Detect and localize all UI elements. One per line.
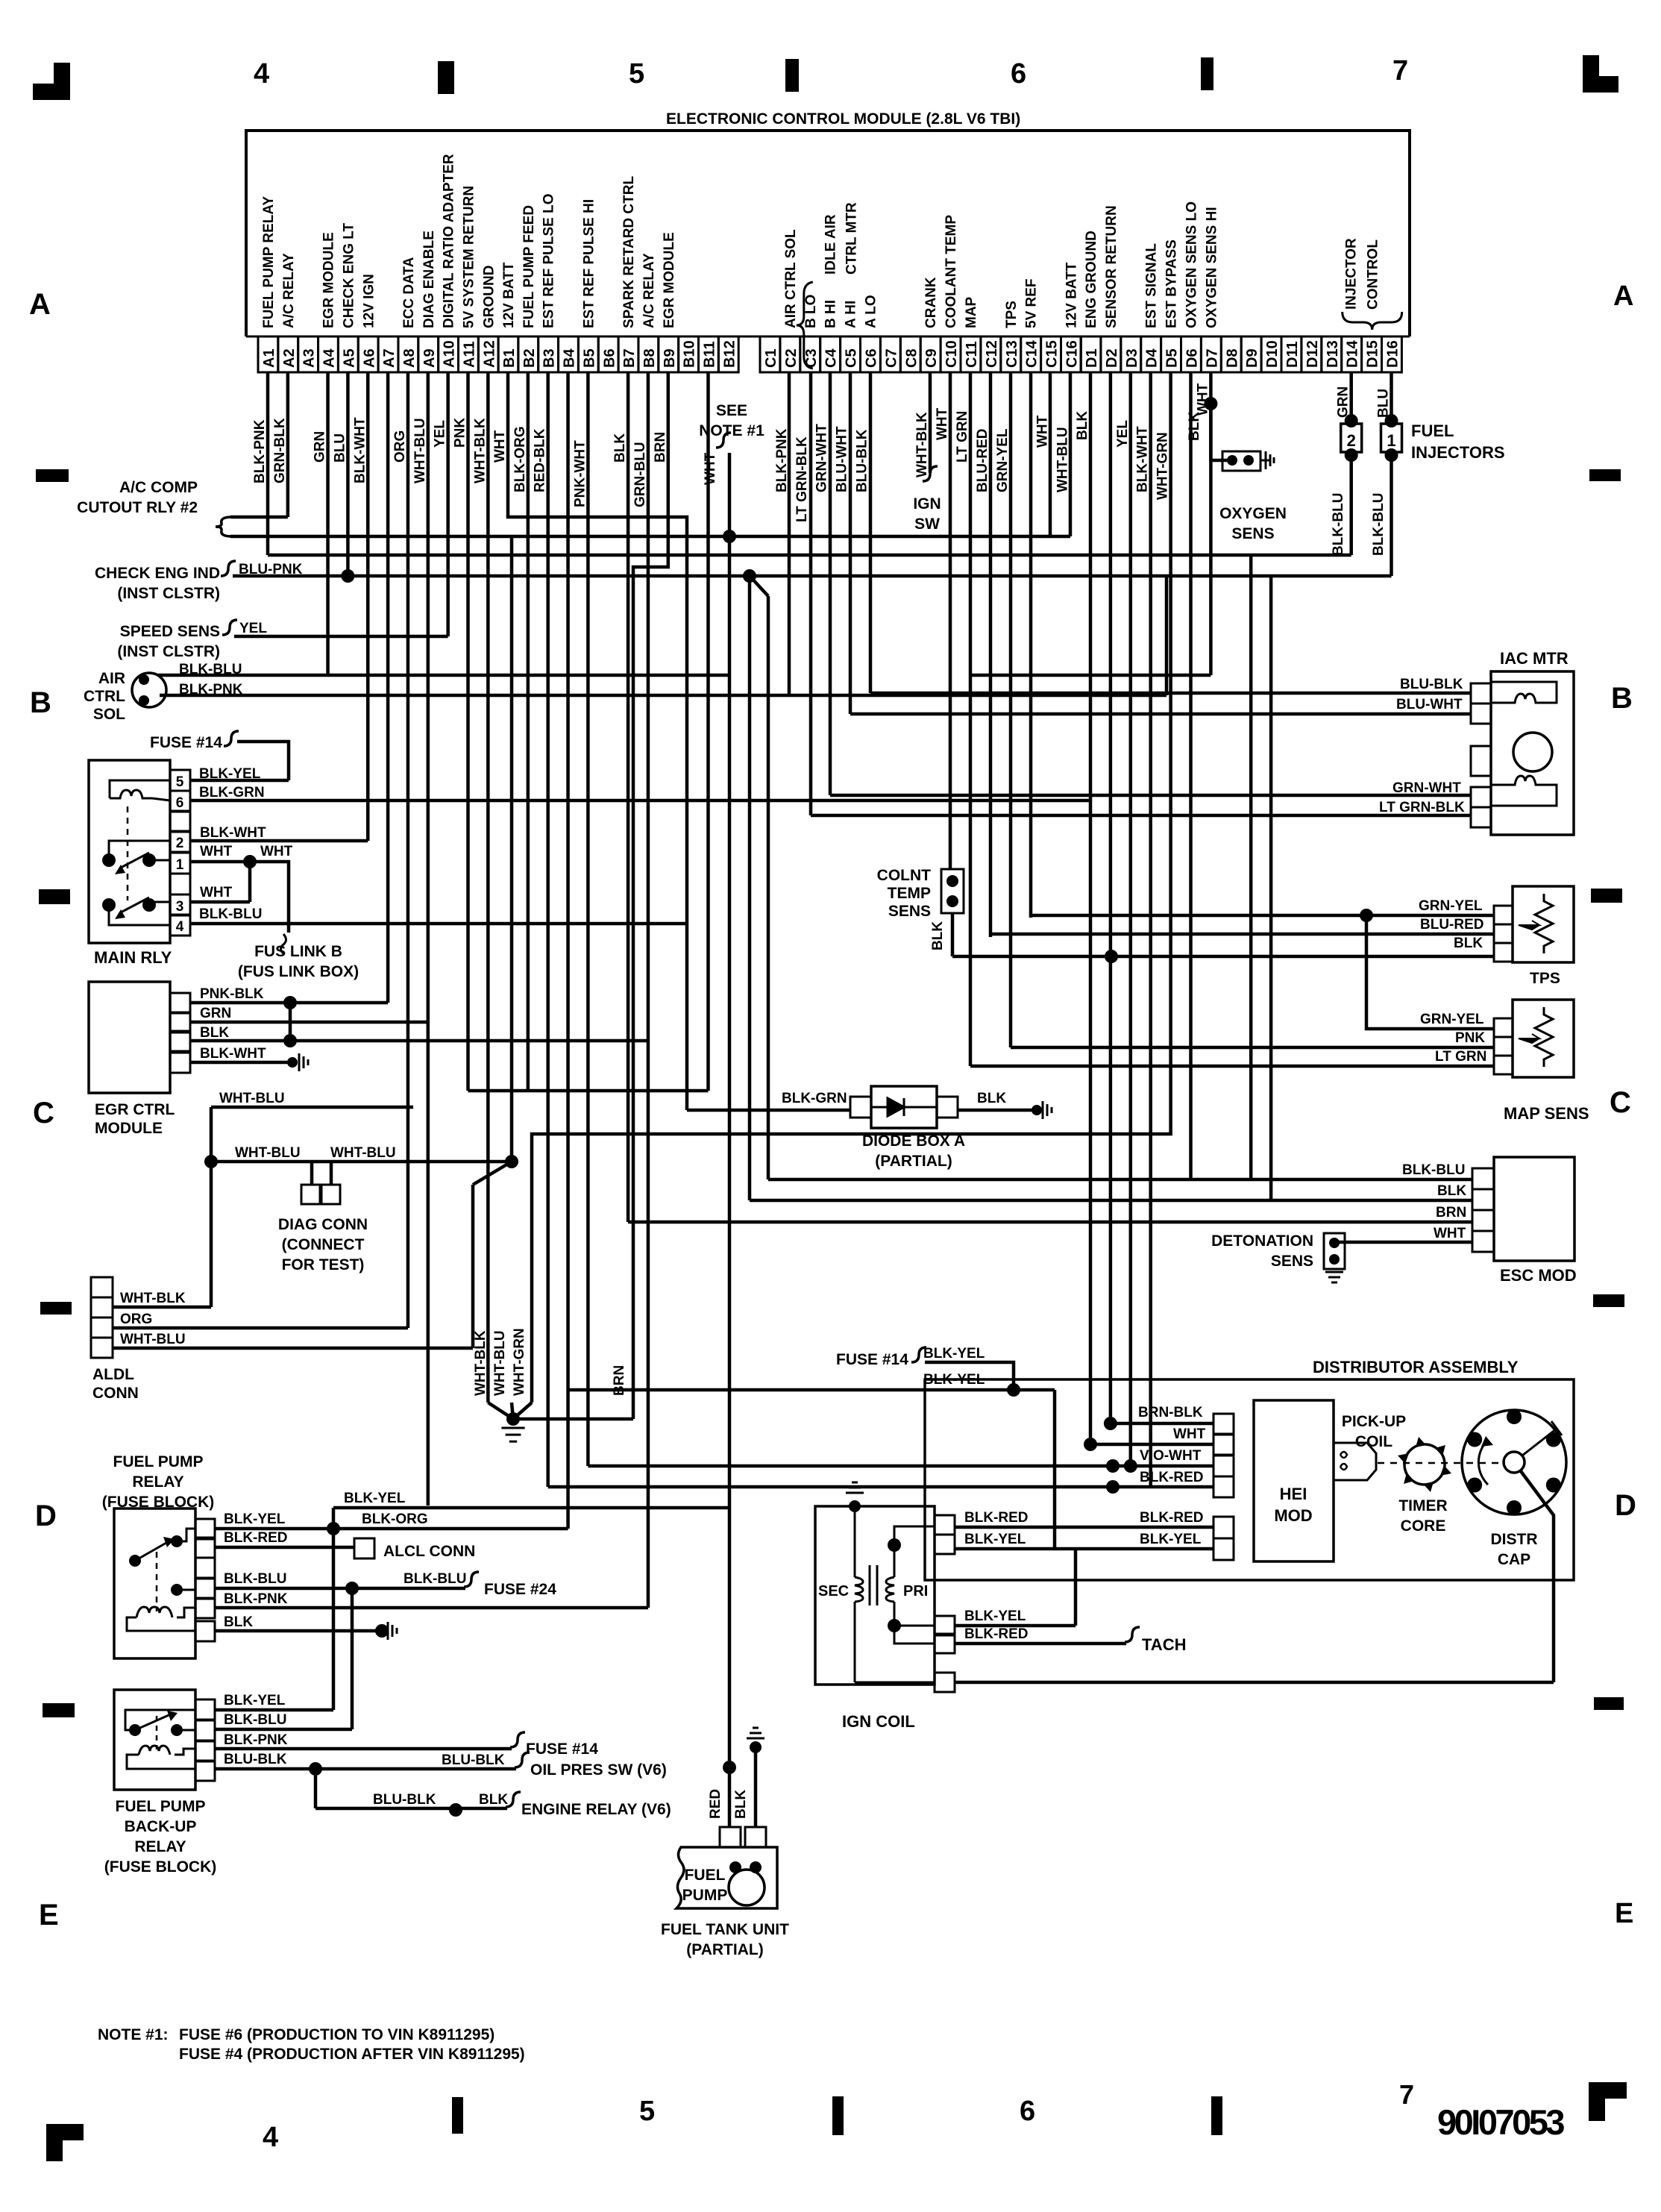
left margin tick row D bbox=[40, 1302, 72, 1315]
svg-text:WHT: WHT bbox=[935, 407, 950, 440]
svg-text:BLU-BLK: BLU-BLK bbox=[855, 429, 870, 492]
svg-text:(INST CLSTR): (INST CLSTR) bbox=[117, 643, 220, 660]
wire B4 vertical fuse feed bbox=[566, 372, 570, 1529]
fuel injector 2 bbox=[1345, 414, 1358, 427]
svg-text:D: D bbox=[35, 1500, 57, 1532]
svg-text:BACK-UP: BACK-UP bbox=[125, 1818, 197, 1835]
svg-text:BLK-BLU: BLK-BLU bbox=[199, 906, 262, 922]
MAP resistor bbox=[1535, 1007, 1553, 1067]
svg-text:12V IGN: 12V IGN bbox=[361, 274, 377, 328]
svg-text:AIR: AIR bbox=[98, 670, 125, 687]
svg-text:A HI: A HI bbox=[844, 301, 859, 328]
svg-text:FUSE #14: FUSE #14 bbox=[150, 734, 222, 751]
svg-text:BLK: BLK bbox=[930, 921, 946, 950]
svg-text:EST SIGNAL: EST SIGNAL bbox=[1144, 243, 1160, 328]
svg-text:OXYGEN SENS LO: OXYGEN SENS LO bbox=[1184, 201, 1200, 328]
detonation sens ground bbox=[1325, 1271, 1343, 1273]
top margin tick 1 bbox=[438, 61, 454, 94]
svg-text:C15: C15 bbox=[1044, 340, 1061, 368]
wire C9 WHT-BLK vertical to IGN SW bbox=[929, 372, 932, 473]
svg-text:D10: D10 bbox=[1264, 340, 1281, 368]
svg-text:IAC MTR: IAC MTR bbox=[1500, 649, 1569, 668]
svg-text:GRN-YEL: GRN-YEL bbox=[995, 428, 1011, 492]
wire bus h744 A1 to injector return bbox=[268, 554, 1351, 557]
ECM pin boxes row C1-C16 bbox=[760, 336, 780, 372]
wire A2 to A/C comp cutout relay bbox=[230, 516, 288, 519]
backup relay coil bbox=[139, 1746, 170, 1755]
wire horizontal 1462 link bbox=[468, 1089, 709, 1093]
ground symbol main funnel bbox=[501, 1427, 524, 1429]
svg-text:5: 5 bbox=[629, 58, 644, 90]
svg-text:BLK-YEL: BLK-YEL bbox=[964, 1608, 1026, 1624]
svg-text:2: 2 bbox=[1347, 431, 1356, 450]
svg-text:TPS: TPS bbox=[1530, 970, 1560, 987]
svg-text:WHT-BLK: WHT-BLK bbox=[473, 1330, 489, 1396]
svg-text:ORG: ORG bbox=[120, 1312, 152, 1327]
svg-text:C11: C11 bbox=[964, 341, 980, 368]
page corner mark bottom-right bbox=[1589, 2082, 1627, 2099]
svg-text:CHECK ENG IND: CHECK ENG IND bbox=[95, 565, 220, 582]
svg-text:BLU: BLU bbox=[332, 433, 348, 463]
wire C2 BLK-PNK vertical bbox=[788, 372, 791, 695]
wire fuse14 to main relay pin5 bbox=[237, 742, 289, 780]
svg-text:D13: D13 bbox=[1325, 340, 1341, 368]
svg-text:(PARTIAL): (PARTIAL) bbox=[875, 1153, 952, 1170]
wire B1 WHT 12V BATT with jog bbox=[508, 372, 687, 536]
svg-text:WHT-GRN: WHT-GRN bbox=[512, 1328, 527, 1396]
svg-text:CTRL MTR: CTRL MTR bbox=[844, 202, 860, 275]
svg-text:CRANK: CRANK bbox=[923, 277, 939, 328]
svg-text:WHT-BLU: WHT-BLU bbox=[235, 1145, 301, 1161]
wire vertical 1005 to ESC BLK bus bbox=[748, 576, 752, 1200]
svg-text:CTRL: CTRL bbox=[84, 688, 125, 705]
wire BLK fuel pump vertical bbox=[754, 1747, 758, 1827]
svg-text:D7: D7 bbox=[1204, 348, 1220, 368]
svg-text:A6: A6 bbox=[361, 348, 377, 368]
main relay pin cells bbox=[170, 770, 190, 791]
IAC MTR coil bottom bbox=[1491, 776, 1557, 806]
wire RED fuel pump vertical bbox=[723, 1761, 736, 1774]
wire B2 BLK-ORG vertical bbox=[527, 372, 530, 1091]
svg-text:A3: A3 bbox=[301, 348, 318, 368]
left margin tick row B bbox=[36, 469, 69, 482]
svg-text:WHT: WHT bbox=[200, 844, 233, 859]
wire A12 WHT-BLK vertical to ground funnel bbox=[486, 372, 490, 1403]
fuel pump relay switch bbox=[129, 1555, 141, 1567]
svg-text:A11: A11 bbox=[462, 341, 478, 368]
IAC MTR coil top bbox=[1491, 682, 1557, 703]
svg-text:LT GRN: LT GRN bbox=[1435, 1049, 1486, 1065]
ground at EGR BLK-WHT bbox=[299, 1053, 308, 1071]
wire D6 vertical to ESC bus bbox=[1189, 372, 1193, 1179]
fus link B reference bbox=[281, 934, 286, 953]
svg-text:NOTE #1:: NOTE #1: bbox=[98, 2026, 169, 2043]
wire A4 GRN vertical bbox=[326, 372, 330, 675]
svg-text:PNK: PNK bbox=[1455, 1030, 1485, 1046]
distr cap rotation arrow bbox=[1478, 1440, 1488, 1485]
svg-text:3: 3 bbox=[176, 899, 184, 915]
svg-text:BLU: BLU bbox=[1376, 389, 1392, 418]
svg-text:B4: B4 bbox=[562, 348, 578, 368]
backup relay switch bbox=[129, 1724, 141, 1736]
fuel pump relay box bbox=[114, 1508, 195, 1658]
TPS box bbox=[1513, 886, 1574, 962]
svg-text:BLU-BLK: BLU-BLK bbox=[1400, 677, 1463, 692]
svg-text:FUSE #4 (PRODUCTION AFTER VIN: FUSE #4 (PRODUCTION AFTER VIN K8911295) bbox=[179, 2046, 525, 2063]
svg-text:RED-BLK: RED-BLK bbox=[533, 428, 548, 492]
wire WHT see-note vertical to fuel pump bbox=[728, 453, 732, 1827]
svg-text:FUEL TANK UNIT: FUEL TANK UNIT bbox=[661, 1921, 789, 1938]
svg-text:GRN-WHT: GRN-WHT bbox=[814, 424, 830, 492]
svg-text:BLK-GRN: BLK-GRN bbox=[782, 1091, 847, 1106]
svg-text:WHT: WHT bbox=[1434, 1226, 1466, 1241]
svg-text:LT GRN-BLK: LT GRN-BLK bbox=[1379, 800, 1465, 815]
svg-text:SENS: SENS bbox=[888, 903, 931, 920]
wire B8 GRN-BLU vertical bbox=[647, 372, 650, 1608]
svg-text:CUTOUT RLY #2: CUTOUT RLY #2 bbox=[77, 499, 198, 516]
svg-text:FUSE #24: FUSE #24 bbox=[484, 1581, 556, 1598]
svg-text:EGR CTRL: EGR CTRL bbox=[95, 1101, 175, 1118]
ESC connector cells bbox=[1472, 1168, 1494, 1189]
svg-text:BLK: BLK bbox=[977, 1091, 1006, 1106]
right margin tick row B bbox=[1589, 469, 1621, 481]
left margin tick row E bbox=[43, 1703, 75, 1717]
svg-text:WHT-BLK: WHT-BLK bbox=[472, 418, 488, 483]
wire D1 BLK vertical bbox=[1089, 372, 1093, 1444]
main relay switch 2 bbox=[102, 898, 116, 912]
svg-text:FOR TEST): FOR TEST) bbox=[282, 1256, 365, 1273]
svg-text:90I07053: 90I07053 bbox=[1437, 2102, 1564, 2142]
wire horizontal 905 D7 to C11 column bbox=[971, 674, 1211, 677]
wire WHT-BLU horizontal to diag conn bbox=[211, 1160, 512, 1164]
svg-text:C13: C13 bbox=[1004, 340, 1020, 368]
svg-text:FUS LINK B: FUS LINK B bbox=[254, 943, 342, 960]
wire C10 WHT vertical to coolant temp sensor bbox=[949, 372, 952, 869]
svg-text:4: 4 bbox=[176, 919, 184, 935]
svg-text:5V SYSTEM RETURN: 5V SYSTEM RETURN bbox=[462, 186, 477, 328]
svg-text:1: 1 bbox=[1387, 431, 1395, 450]
wire C15 WHT vertical bbox=[1049, 372, 1052, 536]
wire C13 PNK vertical bbox=[1009, 372, 1013, 1047]
IAC MTR connector cells bbox=[1471, 683, 1491, 704]
svg-text:ESC MOD: ESC MOD bbox=[1500, 1266, 1577, 1285]
svg-text:BLK-GRN: BLK-GRN bbox=[199, 785, 265, 800]
svg-text:B9: B9 bbox=[662, 348, 678, 368]
svg-text:TIMER: TIMER bbox=[1398, 1497, 1447, 1514]
svg-text:DISTR: DISTR bbox=[1491, 1531, 1538, 1548]
svg-text:SPEED SENS: SPEED SENS bbox=[120, 623, 220, 640]
node junction see-note wire bbox=[723, 530, 736, 543]
oxygen sens ground bbox=[1260, 451, 1274, 469]
fuel injector 1 bbox=[1385, 414, 1398, 427]
svg-text:IGN COIL: IGN COIL bbox=[842, 1712, 915, 1731]
svg-text:FUEL: FUEL bbox=[685, 1867, 726, 1884]
svg-text:BLU-BLK: BLU-BLK bbox=[224, 1752, 287, 1767]
svg-text:CHECK ENG LT: CHECK ENG LT bbox=[341, 223, 357, 328]
svg-text:BLK: BLK bbox=[200, 1025, 229, 1041]
wire D14 GRN vertical to injector 2 bbox=[1349, 372, 1353, 421]
wire B5 PNK-WHT vertical bbox=[586, 372, 590, 1466]
svg-text:B LO: B LO bbox=[803, 295, 819, 328]
svg-text:FUSE #14: FUSE #14 bbox=[526, 1741, 598, 1758]
wire 12V BATT bus to A/C comp relay and C15 bbox=[230, 535, 1070, 539]
EGR module pin cells bbox=[170, 993, 190, 1013]
fuel pump backup relay box bbox=[114, 1690, 195, 1790]
wire A2 GRN-BLK vertical bbox=[286, 372, 290, 517]
svg-text:A7: A7 bbox=[381, 348, 398, 368]
svg-text:A4: A4 bbox=[321, 348, 338, 368]
svg-text:DIGITAL RATIO ADAPTER: DIGITAL RATIO ADAPTER bbox=[442, 154, 457, 328]
svg-text:B HI: B HI bbox=[823, 300, 839, 328]
svg-text:B: B bbox=[30, 686, 51, 719]
svg-text:EGR MODULE: EGR MODULE bbox=[662, 232, 677, 328]
ALDL conn boxes bbox=[91, 1277, 113, 1297]
wire EGR pnk-blk to blk link bbox=[289, 1003, 292, 1041]
svg-text:BLK-RED: BLK-RED bbox=[1140, 1510, 1204, 1526]
svg-text:TACH: TACH bbox=[1142, 1635, 1186, 1654]
svg-text:FUSE #6 (PRODUCTION TO VIN K89: FUSE #6 (PRODUCTION TO VIN K8911295) bbox=[179, 2026, 494, 2043]
main relay coil bbox=[110, 780, 170, 798]
svg-text:GRN-YEL: GRN-YEL bbox=[1419, 898, 1483, 914]
wire YEL speed sensor bbox=[234, 635, 448, 639]
svg-text:C12: C12 bbox=[984, 340, 1000, 368]
svg-text:RELAY: RELAY bbox=[134, 1838, 186, 1855]
ECM box U1 bbox=[246, 131, 1410, 336]
svg-text:OIL PRES SW (V6): OIL PRES SW (V6) bbox=[530, 1761, 667, 1779]
wire diagonal to ALDL WHT-BLU bbox=[473, 1162, 512, 1185]
svg-text:4: 4 bbox=[263, 2122, 278, 2153]
svg-text:BLK-YEL: BLK-YEL bbox=[224, 1693, 286, 1708]
svg-text:C6: C6 bbox=[864, 348, 880, 368]
wire diag conn left drop bbox=[310, 1162, 314, 1185]
svg-text:IDLE AIR: IDLE AIR bbox=[823, 214, 839, 275]
svg-text:GRN-BLK: GRN-BLK bbox=[272, 418, 288, 483]
wire BLU-PNK check engine bus bbox=[233, 574, 1392, 578]
svg-text:AIR CTRL SOL: AIR CTRL SOL bbox=[783, 229, 799, 328]
wire C11 LT GRN vertical bbox=[969, 372, 973, 1066]
IAC MTR box bbox=[1491, 671, 1574, 835]
svg-text:SENSOR RETURN: SENSOR RETURN bbox=[1104, 205, 1120, 328]
svg-text:MAIN RLY: MAIN RLY bbox=[94, 948, 172, 967]
svg-text:D15: D15 bbox=[1365, 340, 1381, 368]
svg-text:B11: B11 bbox=[702, 341, 718, 368]
wire C4 GRN-WHT vertical bbox=[829, 372, 832, 795]
svg-text:D5: D5 bbox=[1164, 348, 1181, 368]
svg-text:YEL: YEL bbox=[239, 621, 267, 636]
wire BLU-BLK to engine relay bbox=[314, 1769, 318, 1808]
svg-text:SEC: SEC bbox=[818, 1583, 849, 1600]
svg-text:WHT: WHT bbox=[1173, 1426, 1206, 1442]
svg-text:BLK-BLU: BLK-BLU bbox=[224, 1712, 286, 1728]
svg-text:SW: SW bbox=[914, 516, 940, 533]
fuel pump motor circle bbox=[729, 1870, 764, 1905]
svg-text:BLK: BLK bbox=[733, 1790, 749, 1819]
svg-text:(FUSE BLOCK): (FUSE BLOCK) bbox=[104, 1858, 217, 1876]
svg-text:C8: C8 bbox=[903, 348, 920, 368]
svg-text:WHT-BLU: WHT-BLU bbox=[219, 1091, 285, 1106]
svg-text:A12: A12 bbox=[481, 340, 497, 368]
svg-text:DISTRIBUTOR ASSEMBLY: DISTRIBUTOR ASSEMBLY bbox=[1313, 1358, 1519, 1376]
timer core bbox=[1404, 1444, 1445, 1485]
svg-text:D16: D16 bbox=[1385, 340, 1401, 368]
svg-text:FUEL PUMP: FUEL PUMP bbox=[113, 1453, 204, 1470]
node junction x1005 bbox=[743, 569, 756, 583]
svg-text:FUEL PUMP FEED: FUEL PUMP FEED bbox=[521, 205, 537, 328]
wire C16 WHT-BLU vertical bbox=[1069, 372, 1073, 536]
svg-text:TPS: TPS bbox=[1004, 301, 1020, 328]
wire A7 PNK vertical to EGR bbox=[386, 372, 390, 1003]
svg-text:B8: B8 bbox=[641, 348, 658, 368]
node junction A5 check-eng bbox=[341, 569, 354, 583]
svg-text:EST BYPASS: EST BYPASS bbox=[1164, 239, 1180, 328]
oxygen sensor node dot bbox=[1204, 397, 1217, 410]
svg-text:SOL: SOL bbox=[93, 706, 125, 723]
diode symbol bbox=[871, 1098, 937, 1116]
fuel tank unit outline bbox=[676, 1847, 777, 1908]
svg-text:LT GRN: LT GRN bbox=[955, 411, 970, 463]
svg-text:5V REF: 5V REF bbox=[1024, 278, 1040, 328]
svg-text:C: C bbox=[1610, 1086, 1631, 1119]
ign coil pri wiring bbox=[894, 1545, 896, 1577]
wire main relay pin1-pin3 link vertical bbox=[248, 862, 252, 902]
wire vertical B1-jog at diag junction bbox=[510, 536, 514, 1162]
wire D7 WHT vertical to oxygen sensor bbox=[1209, 372, 1213, 675]
svg-text:ORG: ORG bbox=[392, 430, 408, 463]
svg-text:GRN: GRN bbox=[200, 1006, 231, 1021]
svg-text:B: B bbox=[1611, 682, 1633, 715]
svg-text:OXYGEN SENS HI: OXYGEN SENS HI bbox=[1204, 207, 1219, 328]
svg-text:INJECTOR: INJECTOR bbox=[1344, 238, 1360, 310]
svg-text:7: 7 bbox=[1392, 55, 1408, 87]
wire D4 BLK-WHT vertical bbox=[1149, 372, 1152, 1487]
svg-text:E: E bbox=[1615, 1898, 1633, 1929]
svg-text:BLK-YEL: BLK-YEL bbox=[224, 1511, 286, 1527]
svg-text:DIAG CONN: DIAG CONN bbox=[278, 1216, 368, 1233]
svg-text:GRN: GRN bbox=[313, 431, 328, 463]
svg-text:BLK: BLK bbox=[1187, 412, 1202, 441]
svg-text:1: 1 bbox=[176, 857, 184, 873]
svg-text:A/C COMP: A/C COMP bbox=[119, 479, 198, 496]
detonation sens connector bbox=[1324, 1233, 1345, 1269]
svg-text:A/C RELAY: A/C RELAY bbox=[641, 253, 657, 328]
svg-text:BLK-WHT: BLK-WHT bbox=[352, 417, 368, 483]
svg-text:DETONATION: DETONATION bbox=[1211, 1232, 1313, 1250]
svg-text:INJECTORS: INJECTORS bbox=[1411, 443, 1505, 462]
ECM pin boxes row D1-D16 bbox=[1081, 336, 1101, 372]
page corner mark top-right bbox=[1583, 55, 1599, 93]
svg-text:GRN: GRN bbox=[1336, 386, 1351, 418]
svg-text:6: 6 bbox=[1020, 2096, 1035, 2127]
svg-text:(PARTIAL): (PARTIAL) bbox=[686, 1941, 763, 1958]
main relay box bbox=[89, 760, 170, 943]
svg-text:DIAG ENABLE: DIAG ENABLE bbox=[421, 231, 437, 328]
svg-text:WHT-BLK: WHT-BLK bbox=[120, 1291, 186, 1306]
ign coil box bbox=[815, 1506, 935, 1685]
svg-text:COOLANT TEMP: COOLANT TEMP bbox=[943, 215, 959, 328]
svg-text:HEI: HEI bbox=[1280, 1485, 1307, 1503]
coolant temp sens connector bbox=[941, 869, 964, 913]
svg-text:BLK: BLK bbox=[224, 1614, 253, 1630]
svg-text:WHT-BLK: WHT-BLK bbox=[914, 412, 930, 477]
diode box A connector left bbox=[850, 1097, 871, 1118]
svg-text:SENS: SENS bbox=[1231, 525, 1274, 542]
svg-text:CORE: CORE bbox=[1401, 1517, 1446, 1535]
bottom margin tick 2 bbox=[832, 2096, 844, 2135]
wire C3 LT GRN-BLK vertical bbox=[809, 372, 813, 815]
svg-text:TEMP: TEMP bbox=[888, 885, 931, 902]
svg-text:B7: B7 bbox=[621, 348, 638, 368]
dashed shaft line bbox=[1378, 1462, 1505, 1464]
wire vertical 1564 bbox=[1165, 576, 1169, 695]
svg-text:A/C RELAY: A/C RELAY bbox=[281, 253, 297, 328]
wire D2 vertical to sensor return bus bbox=[1109, 372, 1113, 1423]
svg-text:B1: B1 bbox=[501, 348, 518, 368]
left margin tick row C bbox=[39, 889, 70, 904]
svg-text:VIO-WHT: VIO-WHT bbox=[1140, 1448, 1202, 1464]
distr cap rotor center bbox=[1504, 1452, 1525, 1473]
distr cap contacts bbox=[1507, 1409, 1522, 1424]
svg-text:ECC DATA: ECC DATA bbox=[401, 257, 417, 328]
main relay dashed actuator line bbox=[127, 806, 129, 900]
HEI mod box bbox=[1254, 1400, 1334, 1561]
distr cap circle bbox=[1462, 1410, 1566, 1514]
wire vertical 634 to ALDL bbox=[471, 1185, 475, 1348]
svg-text:C9: C9 bbox=[923, 348, 940, 368]
wire diag conn right drop bbox=[330, 1162, 333, 1185]
svg-text:BLK-PNK: BLK-PNK bbox=[252, 419, 268, 483]
svg-text:A: A bbox=[1613, 281, 1633, 312]
MAP connector cells bbox=[1494, 1018, 1513, 1037]
oxygen sens connector bbox=[1222, 451, 1260, 471]
svg-text:D11: D11 bbox=[1284, 341, 1301, 368]
svg-text:BLU-WHT: BLU-WHT bbox=[1396, 697, 1463, 712]
svg-text:WHT-BLU: WHT-BLU bbox=[412, 418, 428, 483]
svg-text:WHT: WHT bbox=[200, 885, 233, 900]
pick-up coil symbol bbox=[1334, 1443, 1376, 1480]
svg-text:D2: D2 bbox=[1104, 348, 1120, 368]
svg-text:BRN: BRN bbox=[1436, 1205, 1466, 1221]
svg-text:B12: B12 bbox=[721, 340, 738, 368]
svg-text:12V BATT: 12V BATT bbox=[501, 262, 517, 328]
svg-text:BLK-RED: BLK-RED bbox=[964, 1510, 1029, 1526]
wire vertical 1442 blk-yel link bbox=[1074, 1549, 1078, 1626]
svg-text:FUSE #14: FUSE #14 bbox=[836, 1351, 908, 1368]
node junction diag bbox=[505, 1155, 518, 1168]
fuel pump relay dashed line bbox=[156, 1552, 158, 1611]
svg-text:D12: D12 bbox=[1304, 340, 1321, 368]
main relay switch 1 bbox=[102, 853, 116, 867]
svg-text:WHT-BLU: WHT-BLU bbox=[330, 1145, 396, 1161]
svg-text:EST REF PULSE HI: EST REF PULSE HI bbox=[581, 199, 597, 328]
svg-text:A LO: A LO bbox=[864, 295, 879, 328]
svg-text:BRN-BLK: BRN-BLK bbox=[1138, 1405, 1203, 1420]
svg-text:(INST CLSTR): (INST CLSTR) bbox=[117, 585, 220, 602]
svg-text:BLK-RED: BLK-RED bbox=[964, 1626, 1029, 1642]
svg-text:BRN: BRN bbox=[653, 432, 668, 463]
svg-text:GRN-YEL: GRN-YEL bbox=[1420, 1012, 1484, 1027]
svg-text:WHT: WHT bbox=[1035, 415, 1051, 448]
HEI connector cells bbox=[1213, 1414, 1234, 1435]
svg-text:C10: C10 bbox=[943, 340, 960, 368]
svg-text:GRN-BLU: GRN-BLU bbox=[632, 442, 648, 507]
svg-text:NOTE #1: NOTE #1 bbox=[699, 422, 764, 439]
svg-text:SEE: SEE bbox=[716, 402, 747, 419]
fuel pump backup relay cells bbox=[195, 1699, 215, 1720]
svg-text:BLK-ORG: BLK-ORG bbox=[512, 426, 528, 492]
wire B3 RED-BLK vertical bbox=[546, 372, 550, 1487]
wire BLK coolant to TPS bbox=[952, 955, 1494, 959]
svg-text:BLK-ORG: BLK-ORG bbox=[362, 1511, 428, 1527]
